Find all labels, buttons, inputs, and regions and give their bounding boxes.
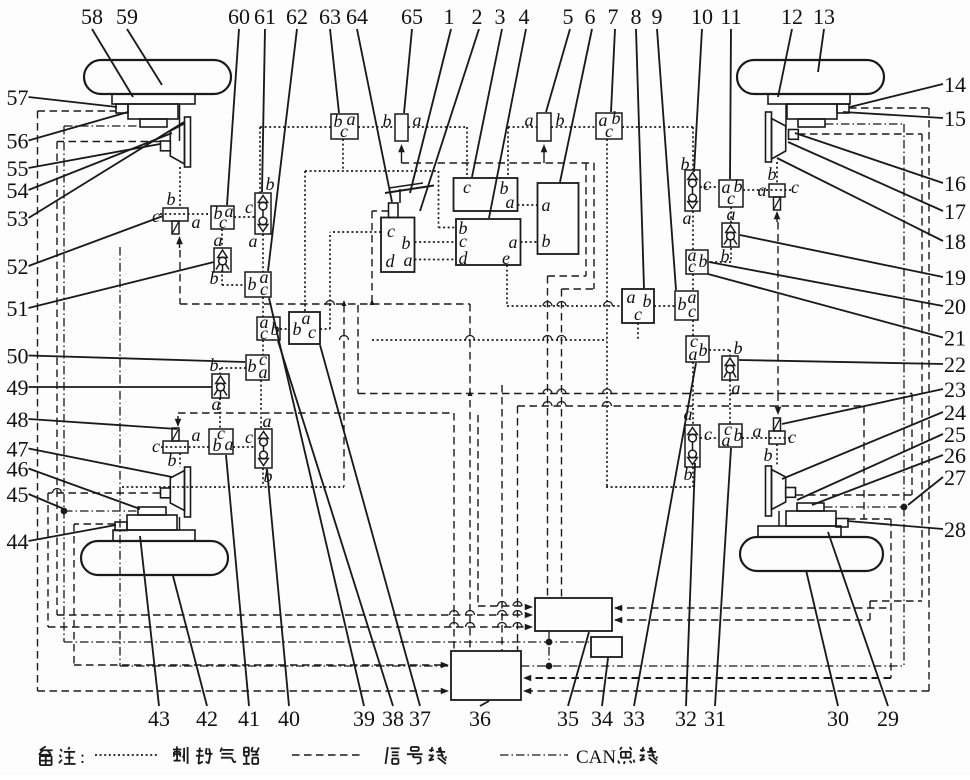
svg-text:c: c: [703, 174, 711, 194]
svg-text:48: 48: [7, 407, 29, 432]
CAN sensorTR link y124: [825, 123, 904, 125]
svg-text:21: 21: [944, 326, 966, 351]
valve box 7: [596, 113, 622, 139]
svg-text:2: 2: [472, 4, 483, 29]
signal ECU35 right port y608: [615, 607, 891, 609]
CAN junction dot left: [61, 508, 68, 515]
legend: zhidongqilu: [176, 746, 178, 751]
svg-text:b: b: [542, 231, 551, 251]
signal rect65/5 actuation y163: [402, 162, 595, 164]
svg-text:32: 32: [675, 706, 697, 731]
svg-text:39: 39: [353, 706, 375, 731]
svg-text:c: c: [152, 206, 160, 226]
brake chamber top-left backplate (53): [185, 117, 191, 167]
wire trunk y340: [372, 339, 607, 341]
wheel speed sensor top-right (15): [798, 119, 825, 127]
svg-text:b: b: [684, 464, 693, 484]
check valve 51: [214, 248, 231, 272]
signal x470 down into ECU36: [469, 304, 471, 651]
signal outer left x37.5: [37, 111, 39, 691]
wire box38-box50: [262, 340, 264, 355]
valve box 9: [675, 291, 698, 320]
brake chamber top-left pushrod nib (55): [161, 141, 171, 151]
svg-text:12: 12: [781, 4, 803, 29]
solenoid valve 23: [769, 431, 785, 444]
ECU box 36: [451, 651, 521, 700]
wire riser x438 to box4 b: [438, 171, 440, 228]
svg-text:b: b: [383, 111, 392, 131]
wire cv19 - box20 b: [730, 248, 732, 262]
brake chamber bottom-right cone (25): [772, 470, 786, 510]
wire trunk y171: [305, 170, 438, 172]
wire relay10 riser: [692, 127, 694, 170]
CAN sensorBL link y511: [64, 510, 138, 512]
svg-text:a: a: [192, 212, 201, 232]
svg-text:27: 27: [944, 465, 966, 490]
svg-text:b: b: [764, 445, 773, 465]
svg-text:e: e: [502, 248, 510, 268]
wire sol23 down to chamberBR: [776, 444, 778, 466]
svg-text:c: c: [791, 177, 799, 197]
check valve 49: [212, 374, 229, 398]
svg-text:58: 58: [81, 4, 103, 29]
valve box 62: [245, 272, 271, 297]
CAN bottom y642 to box34: [64, 641, 591, 643]
svg-text:44: 44: [7, 529, 29, 554]
signal x586 staircase: [585, 163, 587, 276]
solenoid valve 18: [769, 184, 785, 197]
svg-text:17: 17: [944, 199, 966, 224]
signal x594 staircase: [593, 163, 595, 289]
svg-text:a: a: [225, 434, 234, 454]
wire box50 a down to relay40 a: [260, 380, 262, 429]
wire cv51-box62: [221, 270, 223, 285]
svg-text:b: b: [643, 291, 652, 311]
legend dashed sample: [292, 754, 362, 756]
svg-text:c: c: [634, 304, 642, 324]
svg-text:b: b: [248, 356, 257, 376]
control unit U4 (4): [456, 219, 521, 265]
svg-text:15: 15: [944, 106, 966, 131]
wire trunk y306: [507, 305, 622, 307]
svg-text:54: 54: [7, 178, 29, 203]
pressure unit 65: [395, 114, 408, 141]
wire box60-cv51: [221, 229, 223, 248]
wire box9-box33: [692, 320, 694, 336]
svg-text:52: 52: [7, 254, 29, 279]
wire box31 b - sol23: [742, 437, 791, 439]
svg-text:c: c: [340, 121, 348, 141]
svg-text:41: 41: [238, 706, 260, 731]
legend: beizhu: [40, 746, 46, 750]
control unit U3 (3): [454, 178, 518, 211]
svg-text:36: 36: [469, 706, 491, 731]
brake chamber bottom-left pushrod nib: [161, 488, 171, 498]
legend dotted sample: [95, 754, 158, 756]
valve box 60: [211, 206, 234, 229]
wire box38-box37: [280, 328, 289, 330]
valve box 41: [209, 429, 233, 454]
signal sol48 pilot trunk y413: [178, 412, 454, 414]
svg-text:b: b: [721, 246, 730, 266]
svg-text:53: 53: [7, 206, 29, 231]
svg-text:56: 56: [7, 129, 29, 154]
signal BR bracket nib line x891: [848, 518, 891, 520]
svg-text:c: c: [245, 197, 253, 217]
wire box33 b - cv22: [709, 349, 730, 351]
valve box 33: [686, 336, 709, 362]
wire box41 a - relay40 c: [233, 446, 255, 448]
svg-text:a: a: [192, 425, 201, 445]
svg-text:c: c: [387, 221, 395, 241]
svg-text:6: 6: [585, 4, 596, 29]
tire bottom-right (30): [740, 537, 883, 571]
wire box11 c - cv19: [730, 207, 732, 223]
svg-text:46: 46: [7, 457, 29, 482]
svg-text:65: 65: [401, 4, 423, 29]
valve box 63: [331, 114, 358, 139]
wire box33 down to relay32: [692, 362, 694, 425]
svg-text:c: c: [788, 427, 796, 447]
pressure unit 5: [537, 113, 551, 141]
signal trunk y394: [358, 393, 912, 395]
svg-text:16: 16: [944, 171, 966, 196]
svg-text:a: a: [263, 411, 272, 431]
signal x912 down to chamberBR nib: [911, 394, 913, 496]
wire relay32 b down: [692, 467, 694, 487]
wire relay32 c - box31: [700, 437, 719, 439]
svg-text:7: 7: [608, 4, 619, 29]
wheel bracket bottom-left (43/44): [113, 530, 195, 541]
wire chamberTR down to sol18: [776, 162, 778, 184]
svg-text:20: 20: [944, 294, 966, 319]
svg-text:d: d: [459, 248, 469, 268]
valve box 37: [289, 312, 320, 344]
wire y487 right segment: [606, 486, 693, 488]
relay valve 61: [255, 193, 271, 234]
svg-text:42: 42: [196, 706, 218, 731]
wire sol48 a - box41 b: [161, 446, 209, 448]
signal y691 into ECU36 right: [526, 690, 929, 692]
signal x358 riser: [357, 305, 359, 394]
valve box 50: [246, 355, 269, 380]
axle line bottom-left: [179, 517, 181, 530]
svg-text:b: b: [681, 154, 690, 174]
wire box4 e down: [506, 265, 508, 306]
brake chamber bottom-left backplate (47): [185, 467, 191, 517]
CAN bus to ECU36 y666: [521, 665, 904, 667]
solenoid valve 52: [163, 208, 188, 221]
CAN right vertical x904: [903, 124, 905, 666]
svg-text:30: 30: [827, 706, 849, 731]
wire relay10-box20: [692, 211, 694, 250]
valve box 20: [686, 250, 708, 274]
svg-text:4: 4: [519, 4, 530, 29]
signal sol52 pilot down: [179, 250, 181, 304]
svg-text:b: b: [213, 435, 222, 455]
svg-text:b: b: [248, 274, 257, 294]
relay valve 10: [685, 170, 700, 211]
svg-text:c: c: [260, 323, 268, 343]
wire box3 c riser: [466, 127, 468, 178]
axle line bottom-right: [778, 511, 780, 526]
signal chamberBL nib line x48: [48, 492, 160, 494]
wire box20-box9: [692, 274, 694, 291]
svg-text:c: c: [688, 301, 696, 321]
svg-text:b: b: [167, 189, 176, 209]
svg-text:37: 37: [409, 706, 431, 731]
svg-text:61: 61: [254, 4, 276, 29]
signal y111 to TL bracket nib: [38, 110, 117, 112]
valve box 8: [622, 289, 654, 323]
svg-text:19: 19: [944, 265, 966, 290]
svg-text:a: a: [542, 195, 551, 215]
signal ECU35 right port y620: [615, 619, 870, 621]
CAN drop x549: [548, 631, 550, 666]
svg-text:5: 5: [563, 4, 574, 29]
svg-text:59: 59: [116, 4, 138, 29]
valve box 31: [719, 424, 742, 447]
wire box63 riser: [342, 139, 344, 171]
svg-text:a: a: [722, 430, 731, 450]
brake chamber bottom-right pushrod nib (26): [786, 488, 796, 498]
signal bracketTR east y108: [849, 107, 929, 109]
wire pedal b - box4 c: [415, 241, 457, 243]
svg-text:29: 29: [877, 706, 899, 731]
signal trunk y304: [180, 303, 470, 305]
wire sol48 down to chamberBL: [179, 453, 181, 467]
wire box8-box9: [654, 305, 675, 307]
signal x344 riser with arrow: [343, 305, 345, 487]
svg-text:a: a: [683, 208, 692, 228]
svg-text:35: 35: [557, 706, 579, 731]
wire relay61 riser: [259, 127, 261, 193]
svg-text:c: c: [245, 427, 253, 447]
brake chamber top-right cone (17): [772, 119, 786, 160]
svg-text:c: c: [605, 121, 613, 141]
svg-text:28: 28: [944, 517, 966, 542]
svg-text:b: b: [734, 425, 743, 445]
signal trunk y606 into ECU35: [478, 605, 528, 607]
wheel bracket top-right (12/14): [768, 94, 850, 104]
wire relay61-box62: [262, 234, 264, 272]
brake chamber bottom-left cone: [170, 471, 184, 511]
svg-text:c: c: [308, 322, 316, 342]
check valve 19: [722, 223, 739, 247]
svg-text:45: 45: [7, 482, 29, 507]
svg-text:40: 40: [278, 706, 300, 731]
wire sol52-box60: [160, 213, 211, 215]
wire box8 c down: [637, 323, 639, 340]
signal y665 into ECU36: [74, 664, 444, 666]
wire pedal c west: [330, 231, 381, 233]
svg-text:23: 23: [944, 377, 966, 402]
svg-text:b: b: [699, 340, 708, 360]
svg-text:b: b: [293, 319, 302, 339]
svg-text:62: 62: [286, 4, 308, 29]
svg-text:d: d: [386, 251, 396, 271]
wire trunk x305: [304, 171, 306, 312]
svg-text:a: a: [732, 378, 741, 398]
wire box50 b - cv49: [220, 367, 246, 369]
valve box 38: [257, 317, 280, 340]
signal y678 into ECU36: [526, 677, 891, 679]
wire relay40 b down: [262, 468, 264, 487]
svg-text:50: 50: [7, 344, 29, 369]
wheel speed sensor bottom-right: [797, 503, 824, 511]
brake pedal unit U1 (1/2): [381, 218, 415, 273]
signal x517 down into ECU36: [517, 406, 519, 651]
wheel speed sensor bottom-left (46): [138, 507, 166, 515]
svg-text:33: 33: [623, 706, 645, 731]
svg-text:13: 13: [813, 4, 835, 29]
CAN left vertical x64: [63, 126, 65, 642]
signal BL bracket nib line x74: [74, 523, 115, 525]
svg-text:31: 31: [704, 706, 726, 731]
signal trunk y406: [518, 405, 865, 407]
svg-text:22: 22: [944, 352, 966, 377]
wire box60-relay61: [234, 216, 255, 218]
signal chamberTR nib east: [798, 133, 922, 135]
CAN junction dot right: [901, 504, 908, 511]
svg-text:c: c: [688, 256, 696, 276]
svg-text:34: 34: [591, 706, 613, 731]
svg-text:64: 64: [346, 4, 368, 29]
module box 34: [591, 637, 622, 657]
wheel speed sensor top-left (44-analog): [140, 119, 167, 127]
tire top-left (59): [84, 60, 231, 94]
svg-text:c: c: [152, 436, 160, 456]
svg-text:38: 38: [382, 706, 404, 731]
signal x454 down into ECU36: [453, 413, 455, 651]
signal x502 down into ECU36: [501, 385, 503, 651]
brake chamber top-right pushrod nib: [789, 130, 799, 140]
svg-text:60: 60: [228, 4, 250, 29]
signal x478 down: [477, 415, 479, 606]
svg-text:b: b: [768, 164, 777, 184]
svg-text:49: 49: [7, 375, 29, 400]
signal chamberTL nib line y141.5: [57, 141, 160, 143]
svg-text:a: a: [506, 192, 515, 212]
svg-text:10: 10: [691, 4, 713, 29]
wheel bracket top-left (58/56/57): [112, 94, 195, 104]
relay valve 40: [255, 429, 272, 468]
tire top-right (13): [737, 60, 884, 94]
tire bottom-left (42): [81, 541, 228, 575]
signal sol23 pilot from y394: [777, 394, 779, 405]
svg-text:c: c: [463, 177, 471, 197]
svg-text::: :: [80, 747, 85, 767]
wire box4a-box6b: [521, 241, 538, 243]
wire cv49 a down to box41: [219, 398, 221, 429]
signal pedal nib jog: [372, 210, 389, 212]
svg-text:b: b: [699, 251, 708, 271]
wheel bracket bottom-right (29/28): [758, 526, 841, 537]
relay valve 32: [685, 425, 700, 467]
svg-text:1: 1: [444, 4, 455, 29]
wire box3 b riser: [507, 127, 509, 178]
signal trunk y615 into ECU35: [57, 614, 528, 616]
wire box11 b - sol18: [743, 189, 791, 191]
CAN inner left x120: [119, 247, 121, 666]
svg-text:b: b: [168, 450, 177, 470]
hop marks on signal trunks: [450, 611, 459, 616]
svg-text:CAN: CAN: [576, 747, 616, 768]
brake chamber top-right backplate (16): [766, 112, 772, 162]
wire y487 left segment: [122, 486, 344, 488]
legend: xinhaoxian: [386, 747, 388, 764]
svg-text:3: 3: [495, 4, 506, 29]
svg-text:43: 43: [148, 706, 170, 731]
wire box62-box38: [262, 297, 264, 317]
ECU box 35: [535, 598, 612, 631]
signal x57 down (TL chamber nib to ECU35): [56, 142, 58, 616]
svg-text:a: a: [259, 362, 268, 382]
svg-text:c: c: [260, 279, 268, 299]
brake chamber bottom-right backplate (24): [766, 466, 772, 516]
control unit U6 (6): [538, 183, 579, 254]
wire box3a-box6a: [518, 204, 538, 206]
valve box 11: [719, 180, 743, 207]
svg-text:a: a: [249, 231, 258, 251]
svg-text:c: c: [704, 424, 712, 444]
svg-text:c: c: [219, 212, 227, 232]
check valve 22: [722, 356, 738, 380]
axle line top-left: [179, 104, 181, 141]
wire chamberTL to sol52: [179, 167, 181, 208]
signal y691 into ECU36: [38, 690, 445, 692]
legend dashdot sample: [500, 754, 568, 756]
signal sol18 pilot down: [777, 222, 779, 394]
wire box7 c down long riser x607: [606, 139, 608, 487]
svg-text:57: 57: [7, 85, 29, 110]
wire brake trunk y127: [260, 126, 331, 128]
solenoid valve 48: [163, 441, 188, 453]
CAN sensorTL link y126: [64, 125, 140, 127]
svg-text:a: a: [689, 344, 698, 364]
svg-text:51: 51: [7, 296, 29, 321]
signal trunk y627 into ECU35: [48, 626, 528, 628]
wire cv22 a down to box31: [729, 380, 731, 424]
svg-text:14: 14: [944, 72, 966, 97]
svg-text:b: b: [266, 174, 275, 194]
svg-text:b: b: [210, 355, 219, 375]
signal x922 down: [921, 134, 923, 601]
wire pedal a - box4 d: [415, 259, 457, 261]
signal outer right x929: [928, 108, 930, 691]
svg-text:b: b: [210, 268, 219, 288]
svg-text:18: 18: [944, 229, 966, 254]
svg-text:9: 9: [652, 4, 663, 29]
svg-text:b: b: [734, 338, 743, 358]
axle line top-right: [785, 104, 787, 130]
brake chamber top-left cone (54): [170, 124, 184, 165]
svg-text:11: 11: [720, 4, 741, 29]
svg-text:63: 63: [319, 4, 341, 29]
svg-text:b: b: [678, 294, 687, 314]
svg-text:a: a: [404, 250, 413, 270]
svg-text:8: 8: [631, 4, 642, 29]
wire box37 right port riser: [320, 328, 330, 330]
CAN sensorBR link y507: [824, 506, 904, 508]
wire relay10 c - box11 a: [700, 186, 719, 188]
